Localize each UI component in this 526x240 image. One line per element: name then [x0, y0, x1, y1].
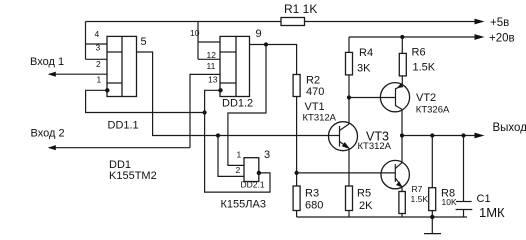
svg-text:R5: R5 [357, 188, 371, 200]
svg-text:К155ЛА3: К155ЛА3 [221, 199, 266, 211]
node DD2.1 output inversion dot [257, 171, 261, 175]
node VT3 base junction dot [295, 171, 299, 175]
svg-text:+20в: +20в [489, 33, 515, 45]
node R6 top junction dot on +20 rail [400, 35, 404, 39]
svg-text:R1 1K: R1 1K [284, 2, 317, 16]
node +5v arrow [475, 19, 485, 25]
svg-text:Выход: Выход [493, 122, 526, 134]
wire DD1.1 pin 1 stub and feedback run to node A [86, 90, 205, 112]
svg-text:C1: C1 [477, 193, 491, 205]
svg-text:4: 4 [95, 29, 100, 39]
svg-text:DD1.2: DD1.2 [222, 98, 253, 110]
flip-flop DD1.2 (K155TM2) body [220, 36, 250, 96]
svg-text:680: 680 [305, 200, 323, 212]
svg-text:DD2.1: DD2.1 [241, 180, 265, 190]
svg-text:Вход 2: Вход 2 [31, 128, 65, 140]
resistor R1 [281, 18, 305, 26]
wire R6 top lead [401, 37, 403, 53]
resistor R3 [293, 186, 300, 211]
wire input 1 line to DD1.1 pin 2 [49, 73, 107, 75]
wire +5V rail right segment [305, 21, 478, 23]
resistor R7 (in VT3 emitter) [399, 192, 405, 214]
svg-text:КТ326А: КТ326А [416, 104, 450, 115]
svg-text:1.5K: 1.5K [413, 62, 436, 74]
svg-text:10K: 10K [442, 197, 457, 207]
wire R4 top lead from +20 rail corner [348, 37, 350, 52]
wire VT1 emitter down to R5 [348, 148, 350, 186]
node B junction dot on base line [216, 133, 220, 137]
svg-text:R3: R3 [305, 188, 319, 200]
wire VT3 collector up to output node [401, 136, 403, 163]
wire VT2 base line [349, 97, 396, 99]
wire +20V rail [349, 36, 477, 38]
transistor VT3 [381, 160, 409, 188]
gate DD2.1 (K155LA3) body [244, 158, 259, 182]
wire R2 bottom to R3 top through VT3 base node [296, 97, 298, 187]
svg-text:R4: R4 [359, 47, 373, 59]
svg-text:КТ312А: КТ312А [303, 112, 337, 123]
wire VT1 collector up to R4 bottom [348, 75, 350, 124]
wire R7 bottom to ground rail [401, 214, 403, 218]
node output collectors junction dot [400, 133, 404, 137]
svg-text:12: 12 [207, 50, 217, 60]
svg-text:R6: R6 [412, 47, 426, 59]
node DD1.1 pin1 inversion dot [105, 88, 109, 92]
resistor R5 [346, 186, 353, 211]
svg-text:9: 9 [256, 28, 262, 40]
wire input 2 line [49, 147, 190, 149]
wire VT3 emitter into R7 [401, 187, 403, 192]
capacitor C1 [456, 202, 473, 218]
wire R8 top lead [431, 136, 433, 188]
node C junction dot on pin 9 wire [264, 42, 268, 46]
resistor R6 [399, 53, 406, 76]
svg-text:VT2: VT2 [416, 92, 436, 104]
node A junction dot [203, 110, 207, 114]
svg-text:470: 470 [306, 86, 324, 98]
svg-text:2: 2 [96, 59, 101, 69]
svg-text:11: 11 [207, 61, 216, 71]
svg-text:КТ312А: КТ312А [358, 141, 392, 152]
wire R8 bottom to ground rail [431, 211, 433, 217]
node C1 junction dot on output line [461, 133, 465, 137]
resistor R4 [346, 52, 353, 75]
wire +5V rail left segment [86, 21, 282, 23]
svg-text:5: 5 [141, 36, 147, 48]
svg-text:3K: 3K [357, 63, 371, 75]
wire left pullup vertical to DD1.1 pins 4,3 [86, 22, 108, 60]
node input 1 arrow [48, 72, 56, 77]
transistor VT1 [329, 122, 358, 151]
svg-text:1: 1 [237, 150, 242, 160]
svg-text:10: 10 [190, 28, 200, 38]
node R8 junction dot on output line [430, 133, 434, 137]
svg-text:R2: R2 [306, 75, 320, 87]
svg-text:13: 13 [208, 75, 218, 85]
wire output line [402, 135, 477, 137]
node +20v arrow [475, 34, 485, 40]
svg-text:3: 3 [264, 149, 270, 161]
wire DD2.1 output loop up to DD1.2 pin 13 [205, 90, 270, 192]
wire DD1.1 output 5 down and across to VT1 base [137, 52, 340, 136]
node output arrow [475, 133, 485, 139]
wire node C down-left to DD2.1 pin 1 [228, 45, 266, 166]
svg-text:3: 3 [96, 43, 101, 53]
wire R3 bottom to ground rail [296, 211, 298, 218]
transistor VT2 [380, 83, 409, 112]
svg-text:+5в: +5в [490, 17, 509, 29]
svg-text:Вход 1: Вход 1 [30, 56, 64, 68]
svg-text:K155TM2: K155TM2 [109, 170, 157, 182]
svg-text:1: 1 [97, 75, 102, 85]
node ground junction dot [430, 215, 434, 219]
wire ground rail [297, 216, 467, 218]
svg-text:1МК: 1МК [479, 205, 505, 220]
wire DD1.2 output 9 across to R2 [250, 45, 297, 75]
wire input 2 up to DD1.2 pin 11 [190, 74, 220, 147]
resistor R8 [429, 188, 436, 211]
wire pullup vertical to DD1.2 pins 10,12 [198, 22, 220, 60]
wire R5 bottom to ground rail [348, 211, 350, 218]
wire VT3 base line [297, 172, 396, 174]
svg-text:1.5K: 1.5K [411, 194, 429, 204]
svg-text:2: 2 [236, 165, 241, 175]
flip-flop DD1.1 (K155TM2) body [107, 36, 137, 96]
node input 2 arrow [48, 145, 56, 150]
svg-text:DD1.1: DD1.1 [108, 120, 139, 132]
svg-text:VT1: VT1 [305, 101, 325, 113]
node DD1.2 pin13 inversion dot [218, 88, 222, 92]
svg-text:R7: R7 [412, 184, 423, 194]
wire node B down to DD2.1 pin 2 [218, 136, 244, 177]
resistor R2 [293, 75, 300, 97]
wire VT2 collector down to output node [401, 109, 403, 135]
wire C1 top lead from output line [463, 136, 465, 202]
wire R6 bottom to VT2 emitter [401, 76, 403, 85]
svg-text:2K: 2K [359, 200, 373, 212]
ground [424, 217, 441, 234]
node R4/VT2 base junction dot [347, 95, 351, 99]
